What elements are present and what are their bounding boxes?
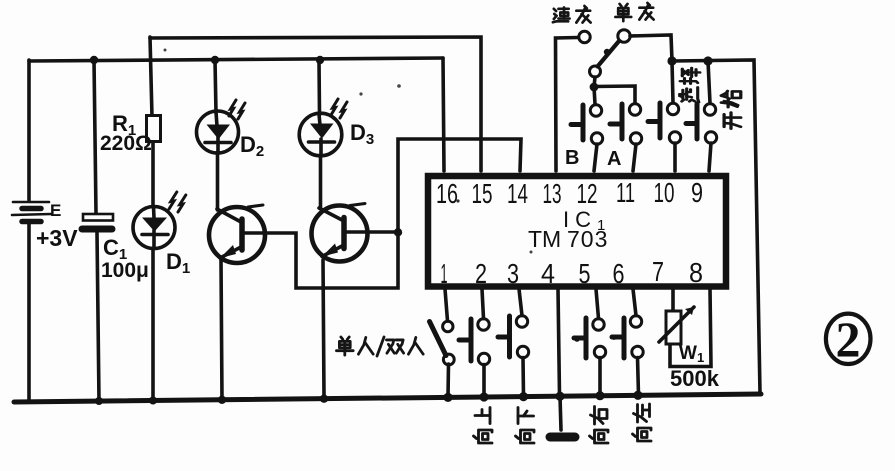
svg-text:15: 15 [472,178,493,209]
svg-text:TM: TM [528,226,561,252]
svg-text:12: 12 [577,178,598,209]
svg-text:2: 2 [836,311,861,367]
svg-text:16: 16 [436,178,458,209]
svg-text:6: 6 [613,258,625,289]
svg-text:14: 14 [507,178,528,209]
svg-text:500k: 500k [670,366,720,391]
svg-text:2: 2 [475,258,487,289]
svg-text:4: 4 [541,258,555,289]
svg-text:7: 7 [652,256,664,287]
svg-text:8: 8 [689,257,703,288]
svg-text:9: 9 [691,177,703,208]
svg-text:13: 13 [543,178,562,209]
svg-text:3: 3 [507,258,519,289]
svg-text:100μ: 100μ [101,259,149,282]
svg-text:E: E [50,201,61,220]
svg-text:10: 10 [654,177,675,208]
svg-text:703: 703 [567,226,608,252]
svg-text:A: A [607,148,621,170]
svg-text:5: 5 [579,258,591,289]
svg-text:+3V: +3V [36,225,78,251]
svg-text:11: 11 [616,177,635,208]
svg-text:220Ω: 220Ω [100,132,152,155]
svg-text:B: B [565,147,579,169]
svg-text:1: 1 [441,258,448,289]
